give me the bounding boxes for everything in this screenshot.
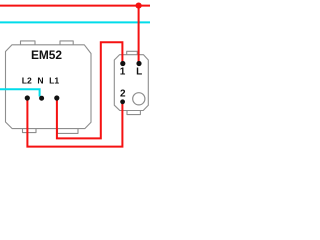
svg-text:L1: L1 [49, 76, 59, 86]
svg-text:EM52: EM52 [31, 48, 62, 62]
svg-text:L: L [136, 66, 142, 77]
svg-text:L2: L2 [22, 76, 32, 86]
svg-text:N: N [37, 76, 43, 86]
svg-text:2: 2 [120, 89, 126, 100]
svg-text:1: 1 [120, 66, 126, 77]
